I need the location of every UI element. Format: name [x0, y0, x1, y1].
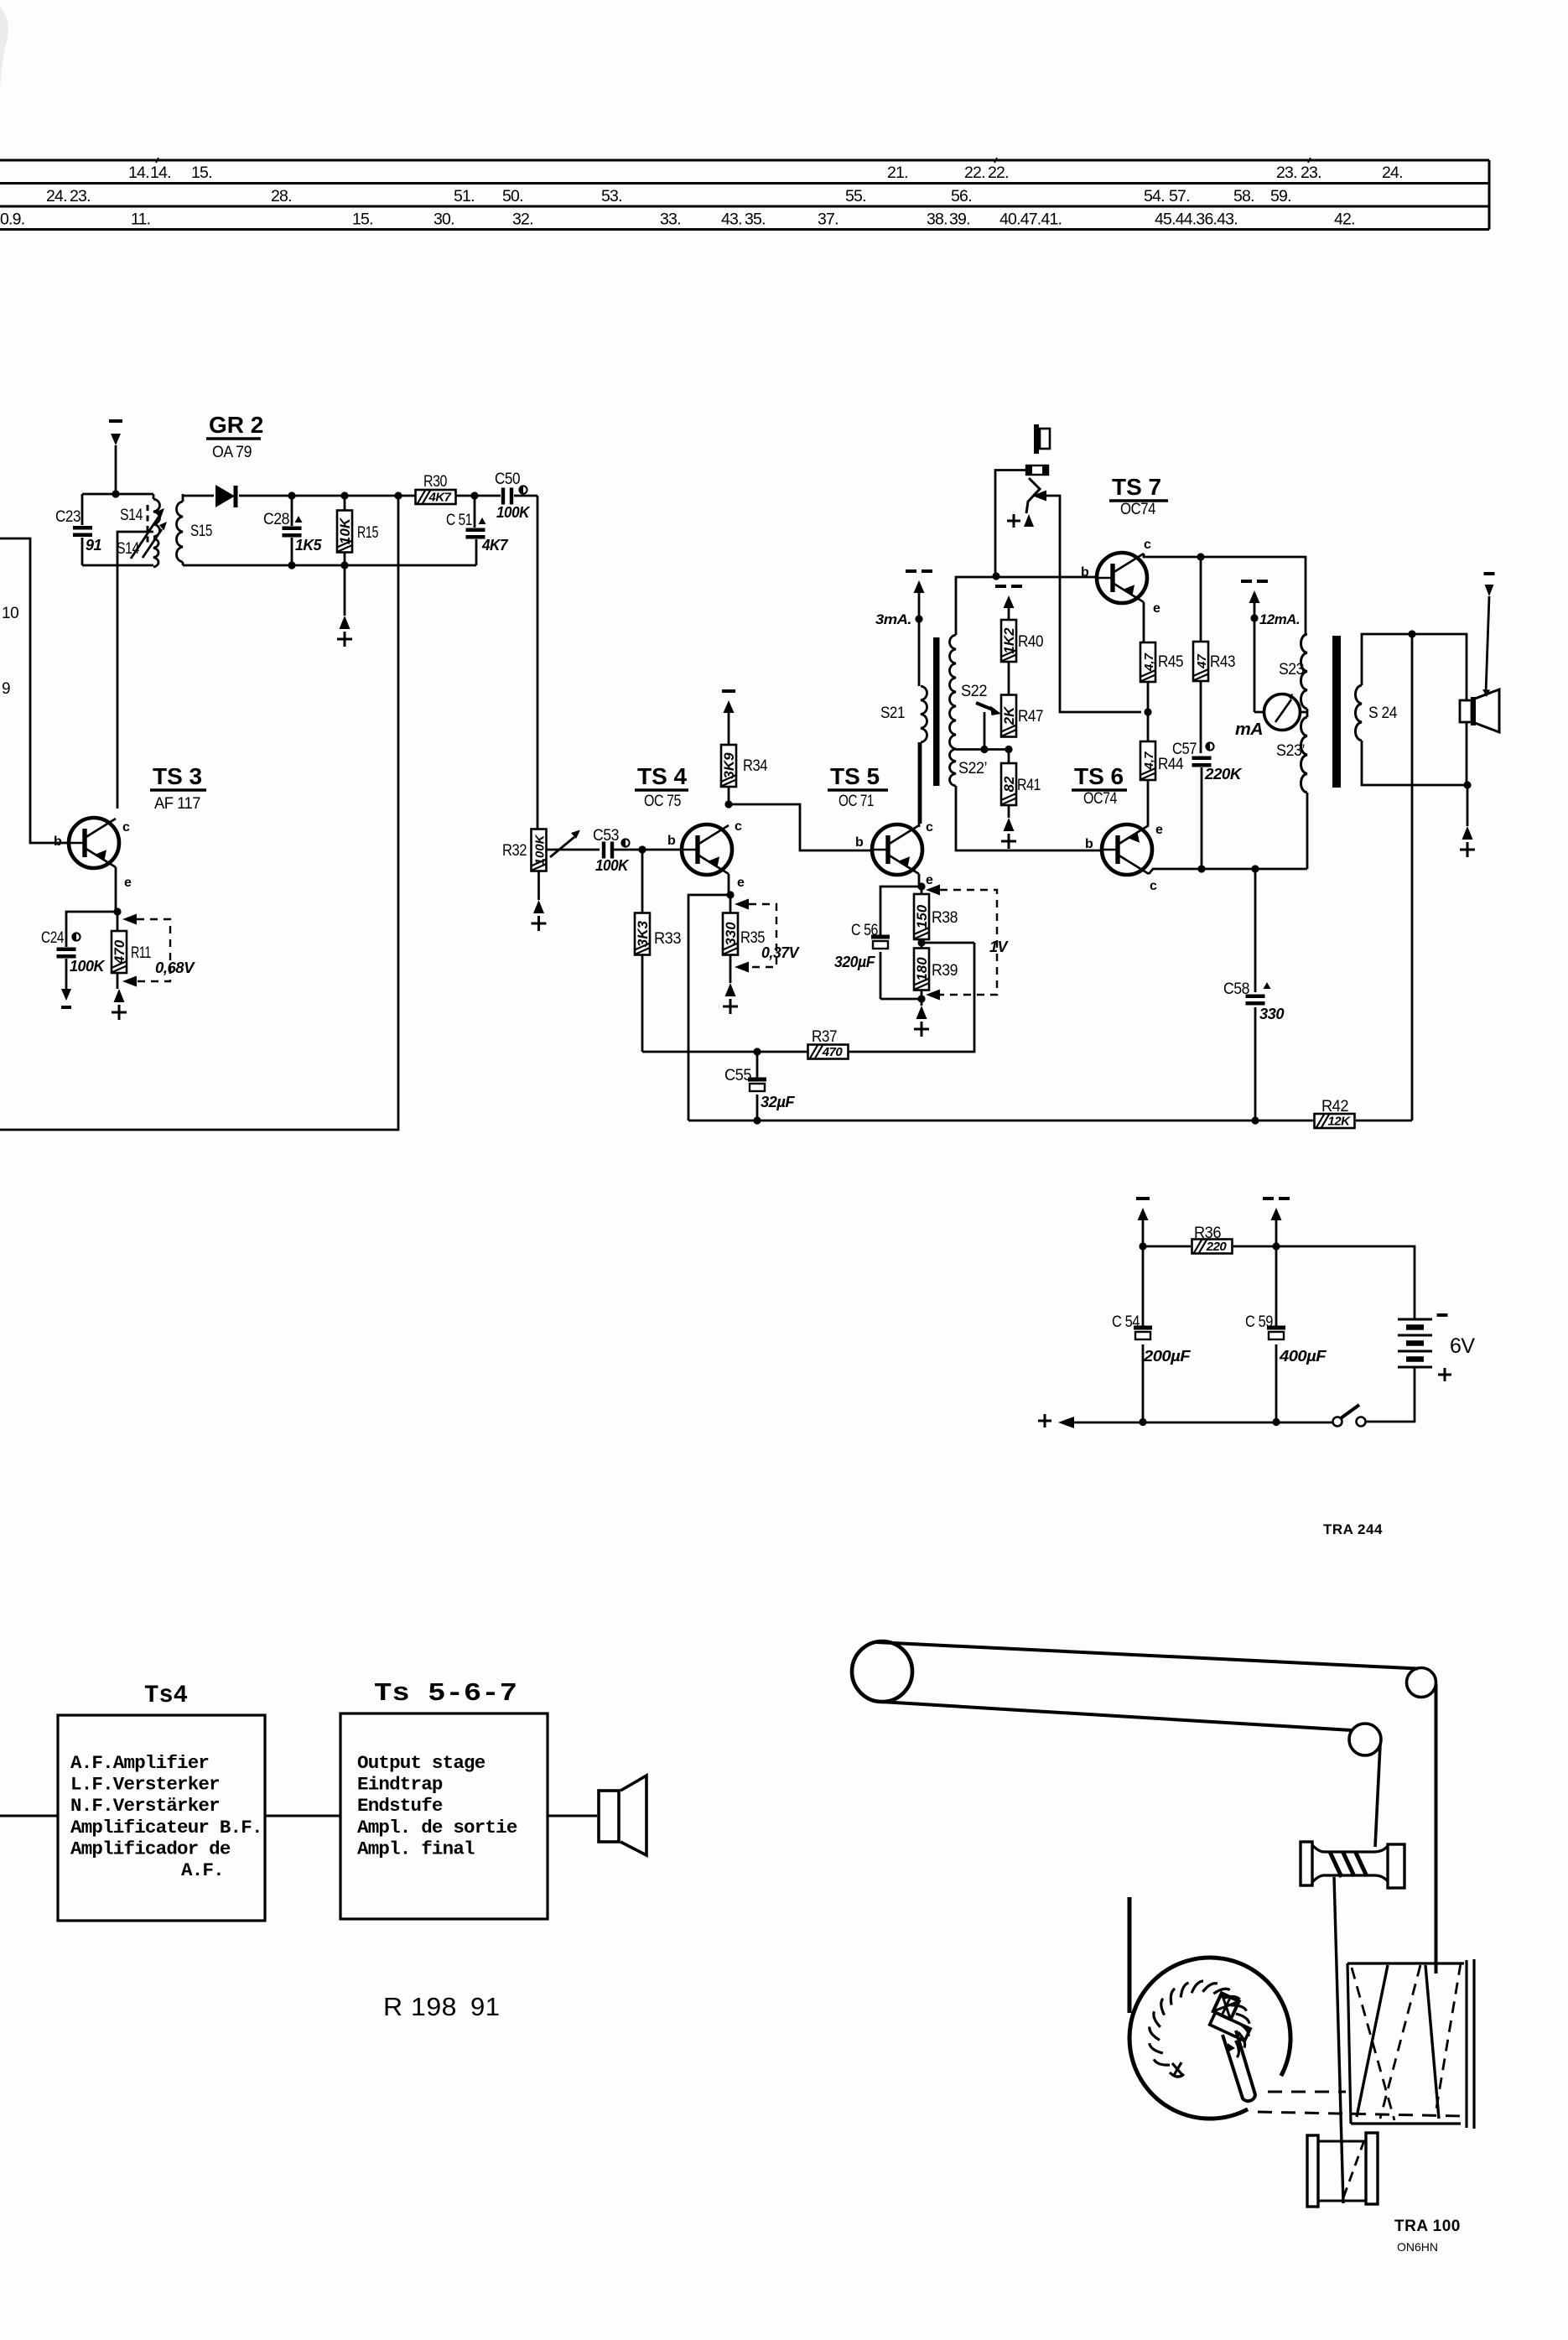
- junction: S24 top to R42 riser: [1408, 630, 1415, 637]
- capacitor C24 100K emitter bypass: [41, 912, 117, 989]
- svg-text:TRA 100: TRA 100: [1394, 2218, 1461, 2235]
- svg-text:C 54: C 54: [1112, 1313, 1140, 1331]
- block diagram loudspeaker: [599, 1776, 646, 1855]
- earphone plug symbol: [1036, 424, 1050, 454]
- svg-text:57.: 57.: [1169, 187, 1190, 205]
- svg-text:100K: 100K: [70, 958, 106, 975]
- svg-text:23.: 23.: [1301, 164, 1321, 182]
- svg-text:R32: R32: [502, 842, 527, 860]
- svg-text:0,68V: 0,68V: [155, 959, 196, 976]
- transistor TS5 (OC71): [872, 824, 922, 875]
- capacitor C54 200uF: [1112, 1246, 1192, 1422]
- svg-text:S23’: S23’: [1276, 742, 1305, 760]
- svg-text:54.: 54.: [1144, 187, 1165, 205]
- terminal - above speaker: [1482, 574, 1495, 697]
- svg-text:39.: 39.: [949, 211, 970, 229]
- potentiometer R47 2K: [1001, 695, 1043, 737]
- terminal - above C54: [1136, 1199, 1150, 1246]
- svg-text:10K: 10K: [337, 517, 353, 544]
- svg-text:470: 470: [112, 939, 127, 965]
- svg-text:1V: 1V: [989, 939, 1009, 955]
- svg-text:50.: 50.: [502, 187, 523, 205]
- svg-text:C23: C23: [55, 508, 80, 526]
- junction: R38/R39 node: [917, 939, 925, 946]
- mech: lever tip detail: [1228, 2043, 1235, 2052]
- on/off switch: [1333, 1405, 1366, 1427]
- title TS 5 / OC 71: [828, 763, 888, 810]
- svg-text:S21: S21: [880, 705, 905, 722]
- svg-text:S23: S23: [1279, 661, 1304, 679]
- svg-text:Amplificateur B.F.: Amplificateur B.F.: [70, 1817, 262, 1838]
- transistor TS7 (OC74): [1097, 553, 1147, 603]
- svg-text:R47: R47: [1018, 708, 1043, 725]
- svg-text:28.: 28.: [271, 187, 292, 205]
- mech: motor flywheel pulley: [852, 1641, 912, 1702]
- svg-text:R42: R42: [1321, 1098, 1348, 1115]
- coil S14 / S14′ (tuned winding with core and trimming arrow): [117, 494, 160, 567]
- wire: tuned-circuit top rail: [82, 493, 153, 496]
- svg-text:100K: 100K: [533, 834, 548, 865]
- svg-text:30.: 30.: [434, 211, 454, 229]
- svg-text:43.: 43.: [721, 211, 742, 229]
- svg-text:55.: 55.: [845, 187, 866, 205]
- svg-text:TRA 244: TRA 244: [1323, 1521, 1383, 1537]
- svg-text:R34: R34: [743, 757, 768, 775]
- mech: intermediate pulley: [1349, 1724, 1381, 1755]
- svg-text:C28: C28: [263, 511, 289, 528]
- svg-text:91: 91: [86, 537, 102, 554]
- svg-text:33.: 33.: [660, 211, 681, 229]
- svg-text:58.: 58.: [1233, 187, 1254, 205]
- svg-text:TS 6: TS 6: [1074, 763, 1124, 789]
- svg-text:4K7: 4K7: [428, 491, 451, 505]
- junction: R47/R41 node: [1005, 746, 1012, 753]
- transistor TS6 (OC74): [1102, 824, 1152, 875]
- svg-text:C55: C55: [724, 1067, 751, 1084]
- coil S21 driver transformer primary: [880, 686, 927, 742]
- svg-text:TS 4: TS 4: [637, 763, 688, 789]
- svg-text:4K7: 4K7: [481, 537, 508, 554]
- svg-text:35.: 35.: [745, 211, 766, 229]
- svg-text:9: 9: [2, 680, 10, 698]
- svg-text:24.: 24.: [46, 187, 67, 205]
- svg-text:b: b: [855, 835, 864, 850]
- junction: top rail to AGC line: [394, 491, 402, 499]
- resistor R41 82: [1001, 750, 1041, 819]
- svg-text:0.9.: 0.9.: [0, 211, 24, 229]
- mech: belt from bobbin down to lower spool: [1334, 1877, 1343, 2203]
- wire: C56 bottom to R39 bottom: [880, 998, 922, 1001]
- core of driver transformer S21/S22: [933, 637, 940, 786]
- diode GR2 (OA79): [215, 485, 235, 507]
- node: 3mA measuring point: [875, 571, 932, 686]
- svg-text:4,7: 4,7: [1142, 653, 1156, 672]
- svg-text:OC74: OC74: [1083, 790, 1118, 808]
- coil S22′ secondary lower: [950, 749, 988, 786]
- terminal + below R32: [532, 871, 547, 931]
- svg-text:12mA.: 12mA.: [1259, 611, 1300, 627]
- measurement 0,37V across R35: [735, 899, 800, 973]
- mech: spring inner hook: [1170, 2062, 1184, 2077]
- junction: R45/R44 node: [1147, 682, 1150, 741]
- transistor TS4 (OC75): [682, 824, 732, 875]
- svg-text:470: 470: [822, 1045, 844, 1059]
- resistor R30 4K7: [416, 473, 456, 505]
- svg-text:C50: C50: [495, 471, 520, 488]
- core of output transformer: [1332, 636, 1341, 788]
- junction: wiper to center tap: [980, 746, 988, 753]
- svg-text:R37: R37: [812, 1028, 837, 1046]
- terminal + below speaker: [1460, 785, 1475, 857]
- wire: detector bottom rail: [183, 564, 476, 567]
- svg-text:200µF: 200µF: [1143, 1348, 1192, 1365]
- jack switch lever: [1026, 478, 1040, 513]
- title TS 3 / AF 117: [150, 763, 206, 813]
- svg-text:56.: 56.: [951, 187, 972, 205]
- svg-text:c: c: [1150, 879, 1157, 893]
- R47 wiper arrow: [976, 703, 1001, 750]
- svg-text:Ts 5-6-7: Ts 5-6-7: [374, 1679, 517, 1708]
- mech: belt down from capstan pulley: [1435, 1684, 1438, 1973]
- mech: reel turntable circle with exit gap: [1129, 1958, 1290, 2119]
- capacitor C51 4K7: [446, 496, 508, 565]
- wire: C53 to TS4 base: [613, 849, 682, 851]
- loudspeaker: [1460, 689, 1499, 732]
- table row 3 numbers: [0, 211, 1355, 229]
- svg-text:14.: 14.: [128, 164, 149, 182]
- svg-text:R41: R41: [1017, 777, 1041, 794]
- mech: tangent guide line left of reel: [1128, 1897, 1132, 2013]
- junction: jack branch on TS7 base wire: [992, 572, 999, 580]
- resistor R34 3K9 collector load: [721, 713, 768, 804]
- junction: R30 / C51 node: [470, 491, 478, 499]
- wire: jack to TS7 base node: [995, 471, 1026, 577]
- junction: TS5 emitter node: [917, 882, 925, 890]
- capacitor C23 91pF: [55, 494, 102, 565]
- capacitor C55 32uF: [724, 1052, 796, 1121]
- junction: TS4 base / R33 node: [638, 845, 646, 853]
- svg-text:330: 330: [723, 922, 739, 946]
- svg-text:4,7: 4,7: [1142, 751, 1156, 771]
- resistor R35 330: [723, 895, 765, 983]
- battery 6V: [1398, 1315, 1475, 1381]
- capacitor C59 400uF: [1245, 1246, 1327, 1422]
- svg-text:R30: R30: [423, 473, 447, 491]
- wire: R38/R39 node to feedback rail: [922, 942, 974, 944]
- svg-text:TS 3: TS 3: [153, 763, 202, 789]
- terminal + below R41: [1001, 818, 1016, 849]
- junction: TS3 emitter node: [113, 907, 121, 915]
- svg-text:38.: 38.: [927, 211, 948, 229]
- mech: dashed link lever to tape stack: [1258, 2092, 1462, 2116]
- wire: TS7 emitter to R45: [1143, 602, 1145, 642]
- svg-text:R33: R33: [654, 930, 681, 948]
- wire: detector top rail: [183, 495, 537, 497]
- svg-text:180: 180: [914, 957, 930, 981]
- svg-text:15.: 15.: [352, 211, 373, 229]
- svg-text:mA: mA: [1235, 720, 1263, 739]
- svg-text:c: c: [926, 820, 933, 835]
- svg-text:AF 117: AF 117: [154, 795, 200, 813]
- junction: TS4 emitter node: [726, 891, 734, 898]
- resistor R38 150: [914, 887, 958, 943]
- svg-text:R 198: R 198: [383, 1992, 457, 2021]
- resistor R37 470 feedback: [808, 1028, 849, 1059]
- svg-text:OC 75: OC 75: [644, 793, 681, 810]
- svg-text:OA 79: OA 79: [212, 444, 252, 461]
- svg-text:0,37V: 0,37V: [761, 944, 800, 961]
- svg-text:Ampl. final: Ampl. final: [357, 1838, 475, 1859]
- title TS 6 / OC74: [1072, 763, 1127, 808]
- junction: TS4 collector node: [724, 800, 732, 808]
- svg-text:R15: R15: [357, 524, 378, 542]
- transistor TS3 (AF117): [69, 818, 119, 868]
- svg-text:c: c: [1144, 538, 1151, 552]
- wire: TS4 emitter: [728, 874, 730, 895]
- svg-text:TS 7: TS 7: [1112, 474, 1161, 500]
- mech: pressure pad holder: [1207, 1993, 1259, 2041]
- resistor R39 180: [914, 943, 958, 999]
- svg-text:S22: S22: [961, 683, 987, 700]
- resistor R15 10K: [337, 496, 378, 565]
- svg-text:b: b: [54, 835, 62, 849]
- svg-text:A.F.: A.F.: [181, 1859, 224, 1881]
- svg-text:R11: R11: [131, 944, 151, 962]
- wire: C50 to volume control R32: [537, 496, 539, 829]
- svg-text:Eindtrap: Eindtrap: [357, 1774, 443, 1796]
- svg-text:Ampl. de sortie: Ampl. de sortie: [357, 1817, 517, 1838]
- svg-text:c: c: [735, 819, 742, 834]
- resistor R40 1K2: [1001, 606, 1043, 695]
- wire: negative rail with R36: [1143, 1246, 1415, 1318]
- resistor R42 12K: [1315, 1098, 1355, 1129]
- terminal + arrow at positive rail: [1038, 1414, 1074, 1428]
- svg-text:59.: 59.: [1270, 187, 1291, 205]
- svg-text:21.: 21.: [887, 164, 908, 182]
- svg-text:Ts4: Ts4: [144, 1682, 188, 1710]
- svg-text:e: e: [124, 876, 132, 890]
- svg-text:150: 150: [914, 904, 930, 928]
- wire: S22 center tap: [956, 748, 1009, 751]
- measurement 1V across R38+R39: [926, 885, 1009, 1001]
- wire: AGC line down right side of TS3 block: [0, 496, 398, 1130]
- block diagram: wire to speaker: [548, 1815, 597, 1817]
- svg-text:R36: R36: [1194, 1225, 1221, 1242]
- node: 12mA measuring point: [1241, 581, 1300, 712]
- mech: brake lever: [1223, 2031, 1255, 2101]
- wire: TS3 emitter: [115, 867, 117, 912]
- svg-text:14.: 14.: [150, 164, 171, 182]
- jack contact: [1026, 465, 1048, 475]
- svg-text:N.F.Verstärker: N.F.Verstärker: [70, 1795, 220, 1817]
- svg-text:42.: 42.: [1334, 211, 1355, 229]
- svg-text:330: 330: [1259, 1006, 1284, 1022]
- svg-text:C 56: C 56: [851, 922, 878, 939]
- svg-text:R40: R40: [1018, 633, 1043, 651]
- milliampere meter mA: [1235, 694, 1301, 739]
- mech: belt from intermediate pulley to winding bobbin: [1375, 1745, 1380, 1847]
- svg-text:OC74: OC74: [1120, 501, 1156, 518]
- terminal - above R40: [995, 585, 1022, 588]
- svg-text:91: 91: [470, 1992, 500, 2021]
- svg-text:53.: 53.: [601, 187, 622, 205]
- tick marks over duplicated numbers: [156, 158, 1311, 163]
- svg-text:S14: S14: [120, 507, 143, 524]
- junction: C55 node: [753, 1048, 761, 1055]
- wire: TS6 collector rail: [1149, 793, 1307, 874]
- svg-text:C53: C53: [593, 827, 619, 845]
- svg-text:10: 10: [2, 605, 18, 622]
- wire: emitter node to C56: [880, 887, 922, 937]
- mech: lower spool: [1307, 2133, 1378, 2207]
- svg-text:2K: 2K: [1001, 705, 1017, 725]
- svg-text:OC 71: OC 71: [839, 793, 874, 810]
- svg-text:e: e: [926, 873, 933, 887]
- svg-text:b: b: [1085, 837, 1093, 851]
- terminal - below C24: [61, 989, 71, 1007]
- scan smudge top-left corner: [0, 7, 8, 91]
- svg-text:C57: C57: [1172, 741, 1197, 758]
- svg-text:C24: C24: [41, 929, 65, 947]
- svg-text:S22’: S22’: [958, 760, 987, 777]
- table row 1 numbers: [128, 164, 1403, 182]
- svg-text:e: e: [1153, 601, 1160, 616]
- title GR 2 / OA 79: [206, 412, 263, 461]
- junction: antenna arrow / top rail: [112, 490, 119, 497]
- wire: bottom ground rail: [688, 1120, 1412, 1122]
- svg-text:e: e: [737, 876, 745, 890]
- wire: TS5 collector to S21: [918, 742, 921, 827]
- resistor R45 4,7: [1140, 642, 1183, 682]
- svg-text:15.: 15.: [191, 164, 212, 182]
- wire: S22 top to TS7 base: [956, 577, 1097, 635]
- wire: S24 loop: [1362, 634, 1467, 785]
- wire: TS7 collector rail: [1144, 554, 1306, 634]
- wire: R44 to TS6 emitter: [1147, 780, 1150, 825]
- alignment table frame: [0, 160, 1489, 230]
- svg-text:b: b: [1081, 565, 1089, 580]
- mech: tape stack side view: [1347, 1959, 1474, 2129]
- capacitor C56 320uF: [834, 922, 890, 999]
- svg-text:R39: R39: [932, 962, 958, 980]
- wire: positive rail: [1074, 1422, 1332, 1424]
- svg-text:L.F.Versterker: L.F.Versterker: [70, 1774, 220, 1796]
- terminal - above R34: [722, 689, 735, 693]
- svg-text:ON6HN: ON6HN: [1397, 2240, 1438, 2254]
- coil S24 secondary: [1356, 685, 1398, 741]
- wire: S22′ bottom to TS6 base: [956, 786, 1102, 850]
- svg-text:47: 47: [1195, 654, 1209, 669]
- resistor R43 47: [1193, 557, 1235, 753]
- svg-text:3mA.: 3mA.: [875, 611, 911, 627]
- svg-text:Amplificador de: Amplificador de: [70, 1838, 231, 1859]
- svg-text:R43: R43: [1210, 653, 1235, 671]
- svg-text:22.: 22.: [988, 164, 1009, 182]
- svg-text:82: 82: [1001, 776, 1017, 792]
- mech: drive belt upper run: [876, 1642, 1418, 1669]
- wire: tuned-circuit bottom rail: [82, 564, 153, 567]
- junction: speaker + node: [1463, 781, 1471, 788]
- capacitor C50 100K coupling: [495, 471, 531, 521]
- block Ts 5-6-7 output stage: [340, 1679, 548, 1919]
- svg-text:24.: 24.: [1382, 164, 1403, 182]
- wire: pin 10 feed to TS3 base: [0, 538, 69, 843]
- resistor R36 220: [1192, 1225, 1233, 1254]
- svg-text:c: c: [122, 820, 130, 835]
- capacitor C58 330: [1223, 869, 1284, 1121]
- potentiometer R32 100K volume: [502, 829, 548, 871]
- terminal + below R35: [725, 983, 736, 996]
- svg-text:3K3: 3K3: [635, 920, 651, 947]
- resistor R33 3K3: [635, 850, 681, 1052]
- svg-text:C58: C58: [1223, 980, 1249, 998]
- wire: S14 tap to TS3 collector: [117, 532, 153, 809]
- coil S23 output transformer primary upper: [1279, 634, 1307, 709]
- wire: meter leads: [1254, 711, 1307, 714]
- svg-text:1K5: 1K5: [295, 537, 322, 554]
- mech: winding bobbin with belt wraps: [1301, 1842, 1404, 1888]
- capacitor C53 100K coupling: [593, 827, 630, 874]
- resistor R11 470: [112, 912, 151, 989]
- svg-text:32.: 32.: [512, 211, 533, 229]
- svg-text:A.F.Amplifier: A.F.Amplifier: [70, 1752, 209, 1774]
- svg-text:320µF: 320µF: [834, 954, 875, 970]
- svg-text:S15: S15: [190, 523, 212, 540]
- terminal + below R39: [914, 999, 929, 1037]
- svg-text:TS 5: TS 5: [830, 763, 880, 789]
- terminal - - above C59: [1263, 1199, 1290, 1246]
- svg-text:R44: R44: [1158, 756, 1184, 773]
- terminal + below lever: [1007, 514, 1034, 528]
- wire: TS4 emitter to ground rail: [688, 895, 730, 1121]
- mech: right capstan pulley: [1407, 1668, 1436, 1698]
- wire: R32 wiper to C53: [546, 849, 600, 851]
- wire: battery bottom to switch: [1366, 1367, 1415, 1422]
- junction: R43 node on collector rail: [1197, 553, 1204, 560]
- resistor R44 4,7: [1140, 741, 1184, 780]
- svg-text:S 24: S 24: [1368, 705, 1398, 722]
- block diagram: input wire: [0, 1815, 58, 1817]
- svg-text:6V: 6V: [1450, 1334, 1475, 1358]
- wire: S21 bottom to TS5 collector: [920, 742, 922, 824]
- mech: clock spring spiral: [1150, 1981, 1249, 2065]
- junction: C57 to collector rail: [1197, 865, 1205, 872]
- capacitor C57 220K: [1172, 741, 1243, 869]
- capacitor C28 1K5: [263, 496, 322, 565]
- svg-text:Output stage: Output stage: [357, 1752, 485, 1774]
- svg-text:45.44.36.43.: 45.44.36.43.: [1155, 211, 1238, 229]
- svg-text:e: e: [1155, 823, 1163, 837]
- svg-text:100K: 100K: [496, 504, 531, 521]
- title TS 7 / OC74: [1109, 474, 1168, 518]
- svg-text:400µF: 400µF: [1279, 1348, 1327, 1365]
- svg-text:R45: R45: [1158, 653, 1183, 671]
- measurement 0,68V across R11: [122, 914, 196, 987]
- coil S22 secondary upper: [950, 635, 988, 749]
- svg-text:GR 2: GR 2: [209, 412, 263, 438]
- jack switch contact arrow to R45/R44 node: [1032, 491, 1141, 713]
- svg-text:C 59: C 59: [1245, 1313, 1273, 1331]
- svg-text:22.: 22.: [964, 164, 985, 182]
- svg-text:b: b: [667, 834, 676, 848]
- svg-text:23.: 23.: [1276, 164, 1297, 182]
- svg-text:11.: 11.: [131, 211, 150, 229]
- wire: mid ground rail with R37: [642, 943, 974, 1052]
- block diagram: wire Ts4 to Ts5-6-7: [265, 1815, 340, 1817]
- node: negative supply flag above tuned circuit: [109, 421, 122, 494]
- svg-text:Endstufe: Endstufe: [357, 1795, 443, 1817]
- svg-text:51.: 51.: [454, 187, 475, 205]
